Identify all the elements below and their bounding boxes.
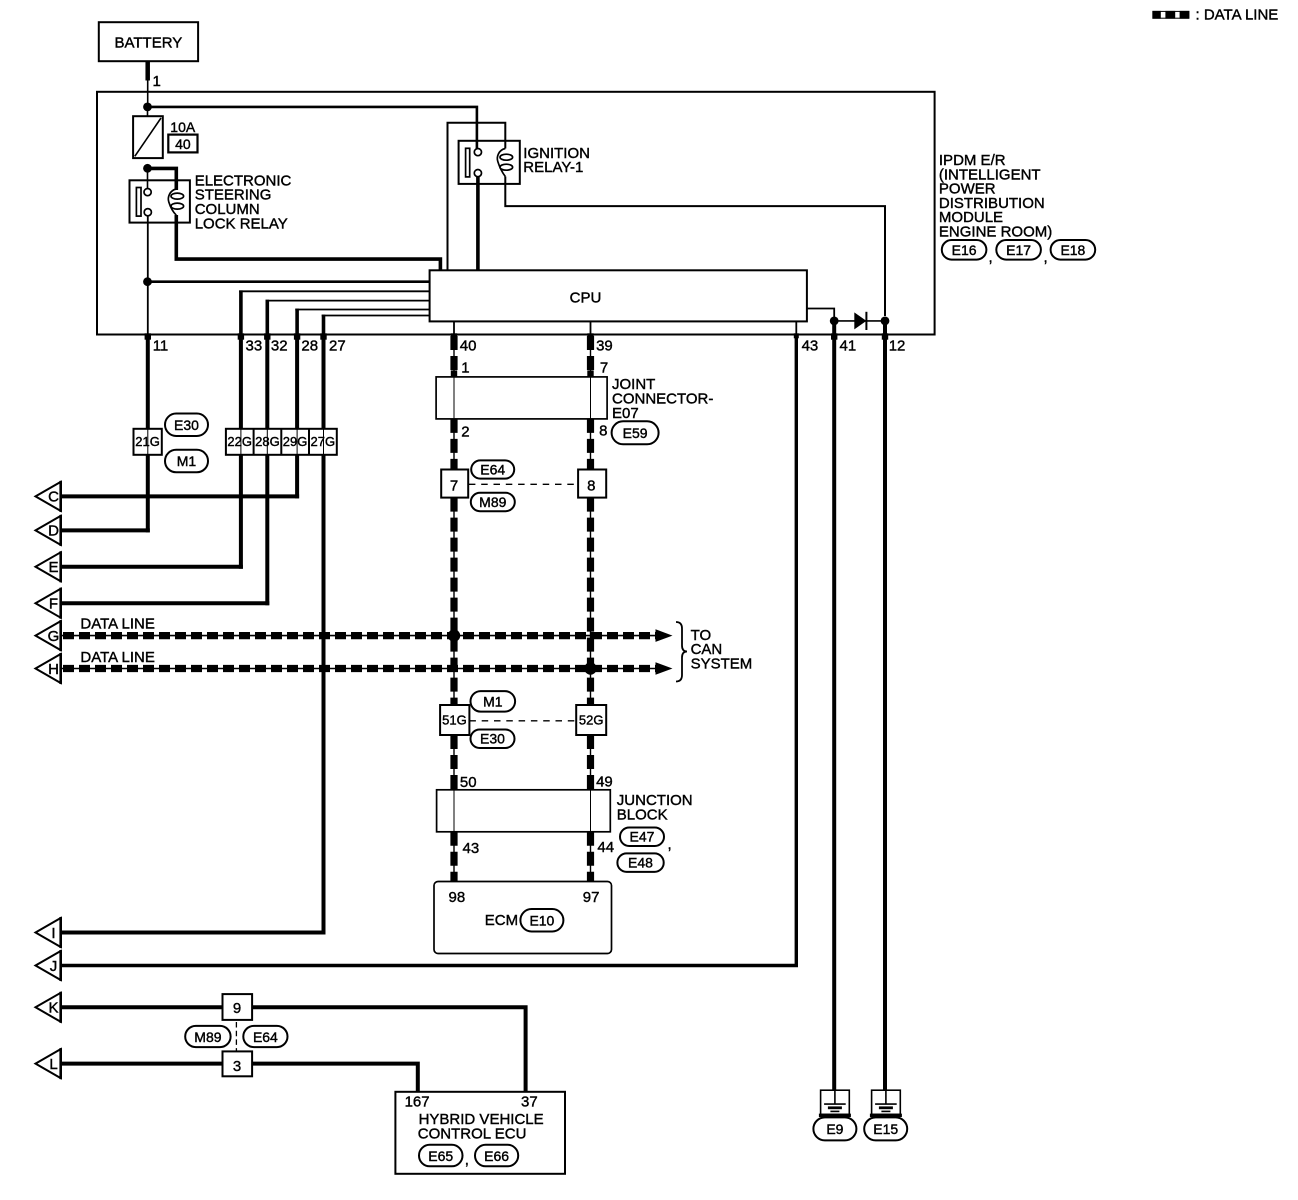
diode bbox=[854, 312, 866, 330]
pin 41 bbox=[831, 333, 856, 354]
connector triangle C bbox=[36, 481, 61, 512]
connector box 51G bbox=[440, 705, 469, 735]
svg-text:M1: M1 bbox=[177, 453, 197, 469]
connector oval E48 bbox=[617, 853, 663, 872]
wire I bbox=[61, 931, 326, 935]
svg-text:,: , bbox=[465, 1152, 469, 1169]
wire 27 upper bbox=[322, 335, 326, 429]
wire 32 upper bbox=[265, 335, 269, 429]
wire fuse node to ESCL contact bbox=[147, 168, 149, 189]
connector oval E16 bbox=[942, 240, 987, 260]
svg-text:,: , bbox=[668, 836, 672, 853]
wire 39 data segment 4 bbox=[590, 735, 592, 790]
svg-text:29G: 29G bbox=[283, 434, 308, 449]
node G data junction bbox=[448, 629, 460, 641]
wire 40 data segment 2 bbox=[453, 419, 455, 470]
svg-text:33: 33 bbox=[246, 338, 263, 355]
svg-text:: DATA LINE: : DATA LINE bbox=[1196, 7, 1279, 24]
connector triangle D bbox=[36, 515, 61, 546]
svg-text:ECM: ECM bbox=[485, 912, 518, 929]
svg-text:7: 7 bbox=[600, 359, 608, 376]
svg-text:C: C bbox=[48, 489, 59, 506]
svg-text:51G: 51G bbox=[442, 713, 467, 728]
hybrid vehicle control ecu box bbox=[395, 1092, 565, 1174]
svg-text:E17: E17 bbox=[1006, 242, 1031, 258]
wire CPU to pin 27 bbox=[322, 315, 430, 317]
svg-text:9: 9 bbox=[233, 1000, 241, 1017]
connector triangle G bbox=[36, 620, 61, 651]
svg-text:52G: 52G bbox=[579, 713, 604, 728]
CPU box bbox=[430, 270, 807, 321]
label IPDM E/R bbox=[939, 152, 1052, 241]
svg-text:27: 27 bbox=[329, 338, 346, 355]
connector box 9 bbox=[223, 994, 253, 1020]
pin 1 joint connector bbox=[451, 359, 470, 377]
connector oval E65 bbox=[419, 1145, 463, 1167]
svg-text:1: 1 bbox=[461, 359, 469, 376]
wire CPU to pin 28 bbox=[295, 309, 429, 311]
wire fuse node to ESCL coil bbox=[148, 168, 177, 190]
wire battery down bbox=[145, 61, 150, 80]
wire 39 data segment 1 bbox=[590, 335, 592, 377]
svg-text:BLOCK: BLOCK bbox=[617, 806, 668, 823]
connector oval E59 bbox=[612, 421, 659, 444]
connector oval M89 bbox=[471, 493, 515, 511]
wire ignition coil bottom to diode node bbox=[505, 177, 885, 317]
svg-text:22G: 22G bbox=[227, 434, 252, 449]
connector box 52G bbox=[576, 705, 606, 735]
fuse number box 40 bbox=[168, 135, 197, 153]
svg-text:7: 7 bbox=[450, 477, 458, 494]
connector oval E64 bbox=[471, 460, 514, 478]
relay ignition contact bar bbox=[466, 148, 470, 177]
node diode left bbox=[830, 317, 839, 326]
pin 50 junction block bbox=[451, 774, 477, 791]
connector oval E18 bbox=[1051, 240, 1096, 260]
relay ESCL contact pin bottom bbox=[144, 209, 151, 216]
connector box 8 bbox=[578, 470, 606, 498]
relay ignition coil bbox=[497, 149, 512, 177]
svg-text:49: 49 bbox=[596, 774, 613, 791]
svg-text:BATTERY: BATTERY bbox=[115, 35, 183, 52]
svg-text:E15: E15 bbox=[873, 1121, 898, 1137]
wire 39 data segment 3 bbox=[590, 498, 592, 705]
connector oval E30 bbox=[165, 414, 208, 437]
wire 40 data segment 5 bbox=[453, 832, 455, 882]
svg-text:44: 44 bbox=[597, 839, 614, 856]
wire 32 lower to F bbox=[265, 455, 269, 605]
wire CPU bottom pin 43 bbox=[795, 321, 797, 334]
wire 40 data segment 4 bbox=[453, 735, 455, 790]
connector triangle E bbox=[36, 551, 61, 582]
label junction block bbox=[617, 792, 693, 823]
wire ESCL contact bottom to pin 11 bbox=[147, 216, 149, 335]
svg-text:43: 43 bbox=[463, 840, 480, 857]
svg-text:12: 12 bbox=[889, 338, 906, 355]
relay ignition contact pin bottom bbox=[474, 170, 481, 177]
svg-text:37: 37 bbox=[521, 1094, 538, 1111]
svg-text:E66: E66 bbox=[484, 1148, 509, 1164]
svg-text:ENGINE ROOM): ENGINE ROOM) bbox=[939, 224, 1052, 241]
connector box 3 bbox=[223, 1051, 253, 1076]
wire 39 data segment 5 bbox=[590, 832, 592, 882]
relay ESCL coil bbox=[168, 189, 183, 215]
connector oval E30 bbox=[471, 730, 515, 749]
svg-text:27G: 27G bbox=[311, 434, 336, 449]
connector oval E17 bbox=[996, 240, 1041, 260]
pin 43 bbox=[794, 333, 818, 354]
node pin11 junction bbox=[143, 277, 152, 286]
connector triangle I bbox=[36, 917, 61, 948]
pin 44 junction block bbox=[587, 832, 614, 856]
pin 98 ECM bbox=[451, 875, 457, 882]
svg-text:D: D bbox=[48, 523, 59, 540]
wire CPU right to diode node bbox=[807, 309, 834, 321]
svg-text:CPU: CPU bbox=[570, 289, 602, 306]
wire 39 data segment 2 bbox=[590, 419, 592, 470]
connector oval E10 bbox=[520, 909, 563, 932]
ground oval E15 bbox=[864, 1117, 907, 1140]
pin 12 bbox=[882, 333, 906, 354]
wire battery pin1 bbox=[147, 81, 149, 107]
connector box 21G bbox=[134, 429, 162, 455]
ground E15 bbox=[870, 1090, 902, 1115]
svg-text:8: 8 bbox=[587, 477, 595, 494]
wire 41 to ground E9 bbox=[832, 321, 836, 1090]
pin 97 ECM bbox=[587, 875, 593, 882]
svg-text:E48: E48 bbox=[628, 855, 653, 871]
IPDM E/R box bbox=[97, 92, 935, 335]
wire CPU bottom pin 39 bbox=[590, 321, 592, 334]
link dashed 7-8 bbox=[469, 483, 578, 485]
wire 40 data segment 1 bbox=[453, 335, 455, 377]
pin 27 bbox=[320, 333, 345, 354]
pin 43 junction block bbox=[451, 832, 479, 857]
pin 28 bbox=[294, 333, 318, 354]
joint connector E07 box bbox=[436, 377, 607, 419]
svg-text:E64: E64 bbox=[480, 462, 505, 478]
connector oval M89 bbox=[185, 1026, 230, 1047]
connector triangle F bbox=[36, 588, 61, 619]
wire 28 lower to C bbox=[295, 455, 299, 499]
node fuse bottom junction bbox=[143, 164, 152, 173]
svg-text:M89: M89 bbox=[194, 1029, 221, 1045]
svg-text:98: 98 bbox=[449, 889, 466, 906]
label ignition relay bbox=[523, 145, 590, 176]
junction block box bbox=[437, 790, 611, 832]
relay ESCL contact pin top bbox=[144, 189, 151, 196]
svg-text:M1: M1 bbox=[483, 694, 503, 710]
svg-text:G: G bbox=[48, 628, 60, 645]
svg-text:1: 1 bbox=[153, 73, 161, 90]
wire diode link bbox=[834, 320, 885, 322]
svg-text:41: 41 bbox=[840, 338, 857, 355]
wire L bbox=[61, 1064, 418, 1092]
svg-text:32: 32 bbox=[271, 338, 288, 355]
svg-text:SYSTEM: SYSTEM bbox=[691, 656, 753, 673]
svg-text:E30: E30 bbox=[174, 417, 199, 433]
wire D bbox=[61, 528, 150, 532]
wire data line H bbox=[61, 668, 658, 670]
svg-text:E10: E10 bbox=[529, 912, 554, 928]
svg-text:8: 8 bbox=[599, 423, 607, 440]
svg-text:2: 2 bbox=[461, 424, 469, 441]
relay ignition contact pin top bbox=[474, 149, 481, 156]
wire 11 upper bbox=[146, 335, 150, 429]
connector triangle J bbox=[36, 950, 61, 981]
label ESCL relay bbox=[195, 172, 292, 232]
wire 43 down to J bbox=[61, 335, 797, 966]
node diode right bbox=[881, 317, 890, 326]
wire E bbox=[61, 565, 243, 569]
svg-text:I: I bbox=[51, 925, 55, 942]
svg-text:RELAY-1: RELAY-1 bbox=[523, 159, 583, 176]
svg-text:28G: 28G bbox=[255, 434, 280, 449]
wire CPU bottom pin 40 bbox=[453, 321, 455, 334]
connector oval E64 bbox=[243, 1026, 287, 1047]
svg-text:10A: 10A bbox=[170, 119, 196, 135]
wire 33 upper bbox=[239, 335, 243, 429]
wire 12 to ground E15 bbox=[883, 321, 887, 1090]
svg-text:E: E bbox=[48, 559, 58, 576]
connector triangle L bbox=[36, 1048, 61, 1079]
svg-text:11: 11 bbox=[153, 338, 169, 355]
svg-text:40: 40 bbox=[175, 136, 191, 152]
connector box 7 bbox=[441, 470, 468, 498]
relay ignition box bbox=[459, 141, 520, 184]
pin 39 bbox=[587, 333, 612, 354]
svg-text:L: L bbox=[49, 1056, 57, 1073]
pin 49 junction block bbox=[587, 774, 612, 791]
connector oval E47 bbox=[620, 828, 664, 847]
wire battery node to ignition relay bbox=[148, 107, 477, 149]
svg-text:E16: E16 bbox=[952, 242, 977, 258]
label TO CAN SYSTEM bbox=[691, 627, 753, 673]
ECM box bbox=[434, 882, 612, 954]
svg-text:E47: E47 bbox=[630, 829, 655, 845]
pin 33 bbox=[238, 333, 262, 354]
node battery junction bbox=[143, 103, 152, 112]
svg-text:E18: E18 bbox=[1060, 242, 1085, 258]
wire data line G bbox=[61, 635, 658, 637]
wire C bbox=[61, 494, 299, 498]
svg-text:E64: E64 bbox=[253, 1029, 278, 1045]
connector triangle H bbox=[36, 653, 61, 684]
wire 27 lower to I bbox=[322, 455, 326, 935]
svg-text:K: K bbox=[48, 1000, 58, 1017]
svg-text:E59: E59 bbox=[623, 425, 648, 441]
wire ignition coil top to CPU bbox=[448, 123, 506, 271]
wire 28 upper bbox=[295, 335, 299, 429]
link dashed 9-3 bbox=[235, 1022, 237, 1051]
wire F bbox=[61, 601, 270, 605]
relay ESCL box bbox=[130, 180, 190, 222]
svg-text:E9: E9 bbox=[826, 1121, 843, 1137]
ground E9 bbox=[819, 1090, 851, 1115]
brace to CAN bbox=[676, 622, 687, 682]
wire 40 data segment 3 bbox=[453, 498, 455, 705]
wire K bbox=[61, 1007, 526, 1092]
svg-text:J: J bbox=[50, 958, 58, 975]
connector triangle K bbox=[36, 992, 61, 1023]
pin 2 joint connector bbox=[451, 419, 470, 441]
svg-text:E30: E30 bbox=[480, 731, 505, 747]
pin 40 bbox=[451, 333, 477, 354]
svg-text:DATA LINE: DATA LINE bbox=[80, 649, 154, 666]
wire ignition contact bottom to CPU bbox=[476, 177, 480, 271]
ground oval E9 bbox=[813, 1117, 856, 1140]
label joint connector bbox=[612, 376, 713, 422]
svg-text:50: 50 bbox=[460, 774, 477, 791]
svg-text:,: , bbox=[989, 249, 993, 266]
svg-text:H: H bbox=[48, 661, 59, 678]
svg-text:F: F bbox=[49, 596, 58, 613]
svg-text:3: 3 bbox=[233, 1058, 241, 1075]
pin 11 bbox=[145, 333, 169, 354]
connector box row 22G 28G 29G 27G bbox=[226, 429, 337, 455]
svg-text:E65: E65 bbox=[428, 1148, 453, 1164]
svg-text:39: 39 bbox=[596, 338, 613, 355]
connector oval M1 bbox=[165, 450, 208, 473]
svg-text:43: 43 bbox=[802, 338, 819, 355]
wire ESCL coil bottom to CPU bbox=[176, 215, 440, 270]
link dashed 51G-52G bbox=[469, 720, 576, 722]
svg-text:CONTROL ECU: CONTROL ECU bbox=[418, 1125, 527, 1142]
svg-text:DATA LINE: DATA LINE bbox=[80, 616, 154, 633]
svg-text:,: , bbox=[1044, 249, 1048, 266]
pin 8 joint connector bbox=[587, 419, 607, 440]
svg-text:E07: E07 bbox=[612, 405, 639, 422]
connector oval E66 bbox=[475, 1145, 518, 1167]
wire CPU to pin 32 bbox=[266, 300, 430, 302]
wire 33 lower to E bbox=[239, 455, 243, 569]
svg-text:40: 40 bbox=[460, 338, 477, 355]
relay ESCL contact bar bbox=[136, 188, 141, 217]
pin 7 joint connector bbox=[587, 359, 608, 377]
svg-text:LOCK RELAY: LOCK RELAY bbox=[195, 216, 288, 233]
svg-text:21G: 21G bbox=[135, 434, 160, 449]
svg-text:28: 28 bbox=[301, 338, 318, 355]
svg-text:167: 167 bbox=[405, 1094, 430, 1111]
connector oval M1 bbox=[471, 691, 516, 712]
node H data junction bbox=[584, 662, 596, 674]
legend data-line symbol bbox=[1152, 11, 1189, 19]
svg-text:M89: M89 bbox=[479, 494, 506, 510]
svg-text:97: 97 bbox=[583, 889, 600, 906]
wire CPU to pin 33 bbox=[239, 290, 430, 292]
battery bbox=[99, 22, 198, 61]
fuse 10A bbox=[133, 116, 163, 158]
wire 11 lower to D bbox=[146, 455, 150, 533]
wire pin11 node to CPU left bbox=[148, 280, 430, 283]
arrow G to CAN bbox=[656, 629, 673, 642]
wire node to fuse bbox=[147, 107, 149, 116]
arrow H to CAN bbox=[656, 662, 673, 675]
pin 32 bbox=[264, 333, 287, 354]
